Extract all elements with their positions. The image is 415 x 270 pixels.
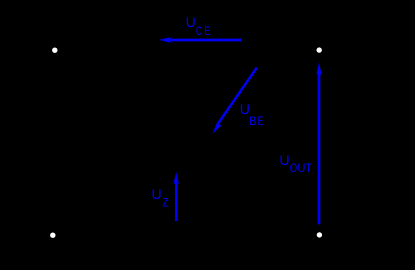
svg-text:U: U (152, 186, 162, 202)
terminal node OUT- (317, 232, 322, 237)
svg-text:E: E (204, 25, 210, 39)
voltage arrow U_OUT (vertical, points up) (316, 62, 321, 224)
svg-text:E: E (258, 115, 264, 129)
label U_OUT (280, 152, 312, 176)
svg-text:T: T (305, 162, 311, 175)
wire base node (200, 110, 213, 235)
svg-text:U: U (280, 152, 290, 168)
voltage arrow U_BE (diagonal, points down-left) (213, 67, 258, 134)
wire bottom rail (53, 234, 319, 236)
svg-text:U: U (298, 162, 306, 176)
terminal node IN- (50, 233, 55, 238)
terminal node OUT+ (317, 47, 322, 52)
label U_BE (240, 101, 264, 129)
voltage arrow U_CE (points left) (159, 37, 242, 42)
svg-text:U: U (186, 14, 196, 30)
wire right rail (318, 50, 320, 235)
wire top (collector-emitter rail, black on black) (55, 49, 319, 51)
transistor Q1 (212, 47, 268, 103)
svg-text:U: U (240, 101, 250, 117)
voltage arrow U_Z (vertical, points up) (174, 172, 179, 221)
label U_CE (186, 14, 210, 39)
zener diode V1 (193, 175, 207, 195)
svg-text:C: C (196, 26, 202, 39)
label U_Z (152, 186, 169, 210)
terminal node IN+ (52, 48, 57, 53)
svg-text:O: O (290, 162, 297, 175)
resistor R1 (193, 70, 207, 110)
svg-text:B: B (249, 116, 257, 129)
svg-text:Z: Z (163, 196, 169, 209)
